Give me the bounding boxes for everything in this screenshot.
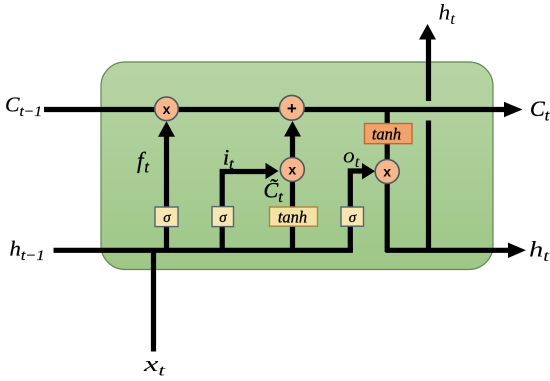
label C~_t (candidate)	[264, 178, 284, 207]
wire: input gate path (up from sigma then right)	[222, 172, 267, 253]
label h_{t-1}	[10, 237, 45, 265]
arrowhead: C_t output right	[504, 102, 523, 117]
sigma box (forget gate)	[155, 207, 178, 227]
arrowhead: h_t output right	[508, 243, 526, 258]
LSTM cell body (green rounded rectangle)	[101, 62, 493, 270]
label f_t	[137, 148, 149, 177]
svg-text:ht−1: ht−1	[10, 237, 45, 265]
wire: candidate multiply to add node	[290, 134, 295, 159]
wire: output multiply node down to h output line	[385, 182, 390, 252]
label h_t (top output)	[439, 0, 456, 28]
svg-text:+: +	[287, 99, 297, 118]
wire: cell state branch down through tanh box	[385, 109, 390, 161]
label C_t (right output)	[530, 96, 550, 125]
arrowhead: input gate into candidate multiply	[266, 163, 279, 180]
svg-text:ht: ht	[529, 237, 550, 266]
label h_t (right output)	[529, 237, 550, 266]
multiply node (candidate x input gate)	[280, 158, 304, 182]
wire: candidate path vertical (tanh box up to multiply node)	[290, 168, 295, 252]
svg-text:tanh: tanh	[372, 125, 401, 144]
multiply node (forget gate)	[155, 97, 179, 121]
wire: h_t output vertical, segment below C line crossing (crossover gap)	[426, 121, 431, 253]
svg-text:tanh: tanh	[278, 207, 307, 226]
label i_t	[223, 145, 234, 174]
svg-text:σ: σ	[219, 210, 227, 226]
svg-text:σ: σ	[163, 210, 171, 226]
svg-text:ht: ht	[439, 0, 456, 28]
svg-text:σ: σ	[349, 210, 357, 226]
multiply node (output gate)	[375, 160, 399, 184]
svg-text:x: x	[288, 162, 296, 178]
sigma box (input gate)	[212, 207, 234, 227]
svg-text:x: x	[383, 164, 391, 180]
label o_t	[343, 143, 360, 172]
wire: hidden state input line h_{t-1} (bottom left horizontal)	[54, 248, 354, 253]
sigma box (output gate)	[341, 207, 364, 226]
wire: h_t output vertical, segment above C line crossing	[426, 38, 431, 101]
arrowhead: forget gate into multiply node	[158, 121, 175, 137]
tanh box (cell state, orange)	[365, 124, 413, 144]
tanh box (candidate, yellow)	[270, 207, 318, 226]
arrowhead: candidate into add node	[284, 121, 301, 137]
svg-text:xt: xt	[143, 351, 166, 380]
wire: output gate path (up from sigma then right)	[350, 171, 362, 252]
wire: hidden state output line (bottom right horizontal)	[386, 248, 510, 253]
svg-text:Ct: Ct	[530, 96, 550, 125]
label x_t	[143, 351, 166, 380]
wire: x_t input vertical	[151, 248, 156, 352]
svg-text:Ct−1: Ct−1	[5, 93, 42, 121]
svg-text:x: x	[163, 101, 171, 117]
arrowhead: output gate into output multiply	[362, 163, 375, 180]
arrowhead: h_t output top	[419, 24, 436, 40]
wire: cell state line C (top horizontal)	[44, 107, 504, 112]
wire: forget gate vertical (h line up through sigma to multiply node)	[164, 135, 169, 252]
label C_{t-1}	[5, 93, 42, 121]
add node (cell state update)	[279, 95, 304, 120]
